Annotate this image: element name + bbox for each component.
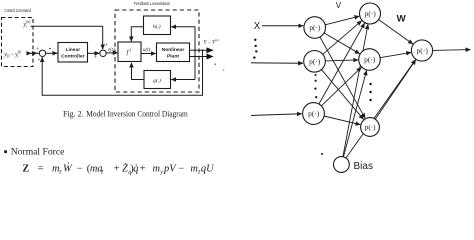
- svg-text:+: +: [36, 47, 39, 53]
- control command dashed box: [2, 18, 34, 67]
- svg-text:Ż: Ż: [122, 162, 128, 174]
- summer S1: [39, 50, 45, 56]
- svg-text:h(.): h(.): [153, 23, 161, 30]
- svg-text:z̄: z̄: [58, 170, 62, 176]
- svg-text:+: +: [114, 163, 120, 174]
- svg-text:−: −: [77, 163, 83, 174]
- svg-text:Model Inversion Control Diagra: Model Inversion Control Diagram: [86, 109, 188, 118]
- svg-text:Y – Y(n): Y – Y(n): [204, 38, 220, 46]
- svg-text:Fig. 2.: Fig. 2.: [63, 109, 84, 118]
- f-inverse box: [118, 42, 141, 62]
- node L2-1: [360, 3, 381, 24]
- wire: h output into f-inverse top: [131, 27, 143, 42]
- svg-text:p(·): p(·): [365, 124, 376, 132]
- wire: yc(n) feedforward top: [31, 26, 103, 49]
- wire: u(t) f-inverse to plant: [141, 53, 156, 55]
- wire: plant output upper: [190, 49, 213, 51]
- svg-text:p(·): p(·): [364, 55, 376, 64]
- svg-text:+: +: [140, 163, 146, 174]
- svg-text:Z: Z: [23, 163, 30, 174]
- svg-text:p(·): p(·): [308, 109, 320, 118]
- node L2-3: [361, 118, 380, 137]
- wire: into h: [171, 26, 195, 28]
- node L1-2: [304, 51, 326, 73]
- hidden/output node circles: [303, 3, 433, 172]
- node labels: [308, 9, 428, 131]
- svg-text:p(·): p(·): [365, 9, 377, 18]
- h box: [144, 16, 171, 35]
- svg-text:W: W: [397, 13, 407, 24]
- svg-text:X: X: [254, 21, 261, 32]
- NN connection lines: [319, 16, 471, 158]
- wire: controller to summer S2: [88, 52, 100, 54]
- svg-text:Plant: Plant: [167, 54, 179, 60]
- nonlinear plant box: [157, 43, 190, 62]
- equation: [23, 162, 216, 176]
- svg-text:=: =: [38, 163, 44, 174]
- node L1-1: [304, 17, 326, 39]
- svg-text:−: −: [178, 163, 184, 174]
- svg-text:V: V: [336, 1, 342, 10]
- svg-text:p(·): p(·): [309, 57, 321, 66]
- wire: plant output lower: [190, 56, 213, 58]
- layer dots: [314, 74, 372, 101]
- svg-text:Ẇ: Ẇ: [63, 162, 73, 174]
- wire: input arrow 2: [251, 62, 303, 64]
- node output: [411, 40, 432, 61]
- svg-text:m: m: [153, 163, 161, 174]
- wire: input arrow 3: [251, 114, 302, 116]
- wire: output arrow: [433, 49, 471, 52]
- wire: yd input to summer 1: [28, 52, 31, 54]
- svg-text:u(t): u(t): [143, 48, 151, 53]
- svg-text:Control Command: Control Command: [5, 8, 32, 13]
- svg-text:y(n)c: y(n)c: [22, 20, 31, 29]
- svg-text:Controller: Controller: [61, 53, 84, 59]
- svg-text:+: +: [94, 55, 97, 61]
- feedback linearization dashed box: [115, 10, 199, 92]
- input dots: [253, 39, 257, 59]
- wire: outer feedback loop: [42, 50, 202, 95]
- wire: S1 to linear controller: [46, 52, 58, 54]
- svg-text:p(·): p(·): [309, 23, 321, 32]
- svg-text:Linear: Linear: [65, 47, 80, 53]
- svg-text:qU: qU: [201, 163, 215, 174]
- svg-text:p(·): p(·): [417, 46, 429, 55]
- node L2-2: [359, 49, 381, 71]
- svg-text:yD–y(t)c: yD–y(t)c: [3, 50, 22, 58]
- svg-text:q̇: q̇: [133, 163, 138, 174]
- bullet: [4, 150, 7, 153]
- linear controller box: [58, 43, 88, 63]
- svg-text:z̄: z̄: [100, 170, 104, 176]
- input arrows: [251, 26, 303, 116]
- svg-text:y: y: [159, 170, 163, 176]
- svg-text:g(.): g(.): [153, 77, 161, 84]
- svg-text:Nonlinear: Nonlinear: [162, 47, 185, 53]
- wire: feedback vertical to h and g: [194, 27, 196, 80]
- svg-text:Bias: Bias: [354, 161, 373, 172]
- node bias: [334, 157, 350, 173]
- svg-text:Feedback Linearization: Feedback Linearization: [134, 1, 171, 6]
- svg-text:Normal Force: Normal Force: [11, 147, 65, 158]
- wire: v(t) into f-inverse: [106, 52, 117, 54]
- node L1-3: [303, 103, 325, 125]
- wire: g output into f-inverse bottom: [132, 63, 145, 80]
- svg-text:pV: pV: [163, 163, 177, 174]
- g box: [144, 71, 171, 89]
- wire: into g: [171, 79, 195, 81]
- svg-text:v(t): v(t): [108, 48, 115, 53]
- wire: input arrow 1: [262, 25, 303, 27]
- summer S2: [100, 50, 106, 56]
